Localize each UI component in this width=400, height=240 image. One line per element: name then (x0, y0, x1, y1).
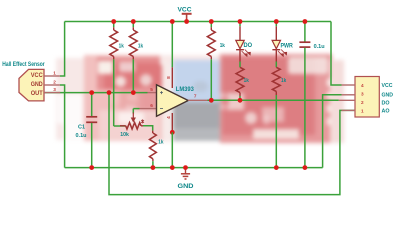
wire GND bus riser to connector pin 3 (323, 95, 342, 168)
capacitor C1 (86, 116, 97, 118)
op-amp plus sign (160, 91, 163, 94)
potentiometer right lead with marker (141, 125, 143, 127)
capacitor 0.1u (299, 41, 310, 43)
hall sensor pin 3 stub (44, 92, 60, 94)
wire AO net: down from OUT wire, along bottom, up to connector pin 1 (109, 93, 355, 195)
junction on pin 4 riser (170, 130, 175, 135)
svg-text:1k: 1k (138, 43, 144, 49)
hall sensor pin 1 stub (44, 75, 60, 77)
svg-text:1k: 1k (119, 43, 125, 49)
wire left VCC riser to hall sensor pin 1 (60, 22, 65, 77)
svg-text:DO: DO (244, 42, 253, 49)
op-amp pin 4 GND riser (171, 113, 173, 132)
wire hall OUT to comparator +input (44, 92, 148, 94)
wire PWR LED top lead (275, 22, 277, 27)
resistor R2 1k vertical (132, 22, 134, 28)
svg-text:1k: 1k (220, 43, 226, 49)
op-amp pin 6 stub (140, 108, 157, 110)
resistor R1 1k vertical (113, 22, 115, 28)
wire C1 bottom lead to GND bus (91, 123, 93, 168)
svg-text:GND: GND (178, 183, 194, 190)
svg-text:VCC: VCC (178, 7, 192, 14)
op-amp pin 7 output stub (188, 99, 207, 101)
wire DO LED top lead (239, 22, 241, 27)
resistor 1k below potentiometer (152, 131, 154, 133)
svg-text:GND: GND (31, 81, 43, 88)
wire pin 4 riser to GND bus (171, 132, 173, 167)
svg-text:6: 6 (150, 103, 153, 108)
wire hall sensor pin 2 GND riser down to GND bus (60, 85, 65, 168)
wire C1 top lead from OUT wire (91, 93, 93, 116)
svg-text:3: 3 (53, 87, 56, 92)
wire 0.1u cap top lead (304, 22, 306, 42)
svg-text:1: 1 (361, 108, 364, 113)
svg-text:VCC: VCC (382, 83, 394, 89)
svg-text:2: 2 (53, 80, 56, 85)
wire pull-up bottom to output wire (210, 59, 212, 100)
wire top VCC rail (65, 21, 331, 23)
hall sensor pin 2 stub (44, 84, 60, 86)
connector pin 1 stub (342, 109, 356, 111)
connector pin 3 stub (342, 94, 356, 96)
wire R1 bottom down to potentiometer left end (crosses OUT wire) (113, 59, 115, 126)
wire DO chain bottom to output wire (239, 96, 241, 100)
wire -input from wiper node to pin 6 (133, 108, 139, 110)
svg-text:VCC: VCC (31, 72, 43, 79)
wire R2 bottom to OUT wire junction (132, 59, 134, 92)
svg-text:DO: DO (382, 101, 390, 107)
svg-text:Hall Effect Sensor: Hall Effect Sensor (2, 61, 45, 68)
VCC power symbol (182, 13, 192, 15)
wire 0.1u cap bottom lead to GND bus (304, 48, 306, 168)
svg-text:C1: C1 (78, 125, 85, 131)
connector header body (355, 77, 379, 118)
svg-text:0.1u: 0.1u (314, 44, 326, 50)
svg-text:10k: 10k (120, 132, 129, 138)
svg-text:2: 2 (361, 100, 364, 105)
op-amp U1 LM393 triangle (157, 85, 189, 116)
junction dots on output wire (209, 98, 214, 103)
svg-text:7: 7 (194, 93, 197, 98)
LED DO emission arrows (242, 50, 250, 56)
LED DO (236, 40, 244, 48)
svg-text:AO: AO (382, 109, 390, 115)
svg-text:5: 5 (150, 87, 153, 92)
op-amp pin 8 VCC riser (171, 22, 173, 68)
wire 1k bottom to GND bus (152, 161, 154, 167)
wire potentiometer left lead corner (114, 125, 126, 127)
svg-text:PWR: PWR (281, 43, 294, 50)
wire GND bus (65, 167, 323, 169)
svg-text:0.1u: 0.1u (76, 133, 88, 139)
svg-text:OUT: OUT (31, 90, 43, 97)
connector pin 4 stub (342, 84, 356, 86)
svg-text:GND: GND (382, 92, 394, 98)
svg-text:8: 8 (166, 76, 171, 79)
junction dots on VCC rail (111, 19, 116, 24)
wire potentiometer right end over to 1k resistor (143, 126, 153, 131)
wire comparator output to connector pin 2 (DO) (208, 99, 339, 101)
svg-text:1: 1 (53, 71, 56, 76)
resistor 1k under DO LED (239, 50, 241, 62)
wire VCC rail right riser to connector pin 4 (331, 22, 342, 86)
connector pin 2 stub (339, 99, 355, 101)
svg-text:1k: 1k (281, 78, 287, 84)
svg-text:1k: 1k (244, 78, 250, 84)
hall effect sensor body (19, 69, 44, 101)
op-amp minus sign (160, 108, 163, 110)
svg-text:3: 3 (361, 92, 364, 97)
LED PWR emission arrows (278, 50, 286, 56)
potentiometer wiper arrow from -input wire (132, 109, 134, 114)
potentiometer 10k body (126, 123, 141, 129)
resistor 1k under PWR LED (275, 50, 277, 62)
op-amp pin 5 stub (148, 92, 157, 94)
LED PWR (272, 40, 280, 48)
junction dots on GND bus (89, 165, 94, 170)
svg-text:LM393: LM393 (176, 86, 194, 93)
wire PWR chain bottom to GND bus (crosses output wire) (275, 95, 277, 168)
junction dots on OUT wire (89, 90, 94, 95)
svg-text:4: 4 (166, 116, 171, 119)
resistor 1k output pull-up (210, 22, 212, 28)
GND ground symbol (185, 168, 187, 174)
svg-text:1k: 1k (158, 140, 164, 146)
svg-text:4: 4 (361, 83, 364, 88)
